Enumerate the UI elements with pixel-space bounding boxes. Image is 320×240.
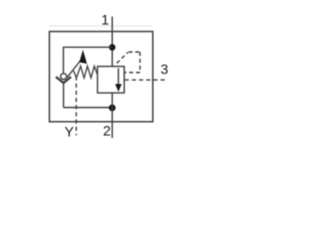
adjustment arrow shaft — [67, 60, 81, 77]
port 2 line — [111, 93, 113, 138]
spring (adjustable) — [74, 66, 98, 78]
ghost artifact line above envelope — [49, 25, 152, 27]
pilot line diagonal (dashed) — [117, 52, 128, 63]
check valve ball — [61, 73, 67, 79]
valve body square — [98, 66, 125, 93]
pilot line top horizontal (dashed) — [129, 51, 141, 53]
port 1 line — [111, 17, 113, 67]
pilot line return horizontal (dashed) — [124, 72, 140, 74]
svg-text:1: 1 — [101, 12, 109, 28]
wire inner left upper — [62, 47, 64, 74]
envelope (outer box) — [49, 32, 152, 122]
svg-text:3: 3 — [161, 61, 169, 77]
svg-text:Y: Y — [65, 124, 75, 140]
wire inner bottom — [63, 107, 112, 109]
port 3 pilot line (dashed) — [125, 79, 167, 81]
flow path arrow shaft — [117, 68, 119, 86]
adjustment arrow head — [79, 50, 87, 64]
wire inner left lower — [63, 83, 65, 107]
drain line Y (dashed) — [75, 76, 77, 135]
node junction dot top — [109, 44, 116, 51]
pilot line right vertical (dashed) — [139, 52, 141, 73]
svg-text:2: 2 — [103, 122, 111, 138]
check valve seat chevron — [56, 77, 71, 83]
node junction dot bottom — [109, 104, 116, 111]
wire inner top — [63, 46, 112, 48]
flow path arrow head — [115, 84, 122, 92]
